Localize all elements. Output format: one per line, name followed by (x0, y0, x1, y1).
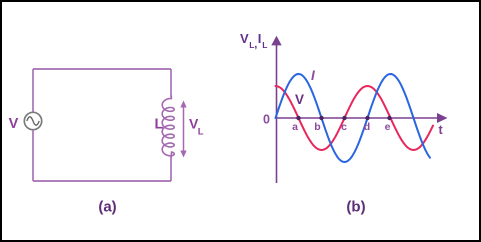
arrow VL (180, 101, 186, 158)
svg-text:a: a (292, 121, 298, 133)
svg-text:I: I (258, 31, 262, 46)
label a (292, 121, 298, 133)
node a dot (296, 116, 300, 120)
label VL (189, 116, 204, 138)
label b (314, 121, 320, 133)
wire right upper (170, 69, 172, 97)
svg-text:e: e (385, 121, 391, 133)
label e (385, 121, 391, 133)
node b dot (319, 116, 323, 120)
wire top (circuit a) (33, 68, 171, 70)
label c (341, 121, 347, 133)
label V (source) (9, 116, 19, 132)
x-axis (t) (277, 113, 448, 123)
svg-text:I: I (311, 68, 315, 83)
label d (364, 121, 370, 133)
svg-text:(b): (b) (346, 199, 365, 216)
inductor L (162, 96, 174, 157)
label t (x-axis) (439, 123, 444, 137)
wire left upper (32, 69, 34, 112)
curve V (red) (276, 86, 434, 150)
svg-text:V: V (295, 92, 304, 107)
svg-text:V: V (9, 116, 19, 132)
wire bottom (33, 180, 171, 182)
caption (b) (346, 199, 365, 216)
svg-text:(a): (a) (98, 199, 116, 216)
label 0 (origin) (263, 113, 270, 127)
svg-text:V: V (240, 31, 249, 46)
ac source V1 (24, 112, 41, 129)
y-axis (271, 36, 281, 183)
svg-text:L: L (198, 127, 204, 138)
node e dot (387, 116, 391, 120)
node c dot (342, 116, 346, 120)
svg-text:b: b (314, 121, 320, 133)
svg-text:d: d (364, 121, 370, 133)
label VL,IL (y-axis) (240, 31, 267, 51)
curve I (blue) (276, 74, 431, 162)
caption (a) (98, 199, 116, 216)
svg-text:c: c (341, 121, 347, 133)
svg-text:L: L (155, 117, 164, 133)
svg-text:L: L (262, 40, 267, 50)
wire right lower (170, 157, 172, 182)
svg-text:0: 0 (263, 113, 270, 127)
wire left lower (32, 130, 34, 181)
node d dot (365, 116, 369, 120)
svg-text:t: t (439, 123, 444, 137)
label I (curve) (311, 68, 315, 83)
label L (155, 117, 164, 133)
label V (curve) (295, 92, 304, 107)
